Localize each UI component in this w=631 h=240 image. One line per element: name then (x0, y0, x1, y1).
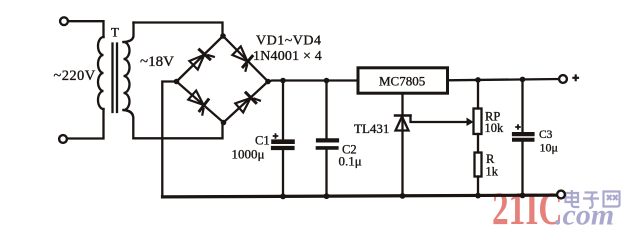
svg-text:1N4001 × 4: 1N4001 × 4 (253, 49, 322, 64)
svg-text:MC7805: MC7805 (379, 73, 425, 88)
svg-text:TL431: TL431 (354, 121, 389, 136)
svg-text:10k: 10k (485, 121, 505, 135)
svg-text:10μ: 10μ (540, 141, 558, 155)
svg-text:C1: C1 (255, 134, 270, 148)
svg-text:~220V: ~220V (54, 68, 96, 84)
svg-text:VD1~VD4: VD1~VD4 (256, 34, 322, 49)
svg-text:1k: 1k (486, 164, 499, 178)
svg-text:T: T (111, 25, 119, 40)
svg-text:0.1μ: 0.1μ (339, 154, 362, 169)
svg-text:C3: C3 (539, 129, 553, 141)
svg-text:21IC: 21IC (492, 182, 562, 234)
svg-text:~18V: ~18V (140, 54, 174, 70)
svg-text:1000μ: 1000μ (232, 147, 265, 162)
svg-text:.com: .com (555, 199, 614, 232)
